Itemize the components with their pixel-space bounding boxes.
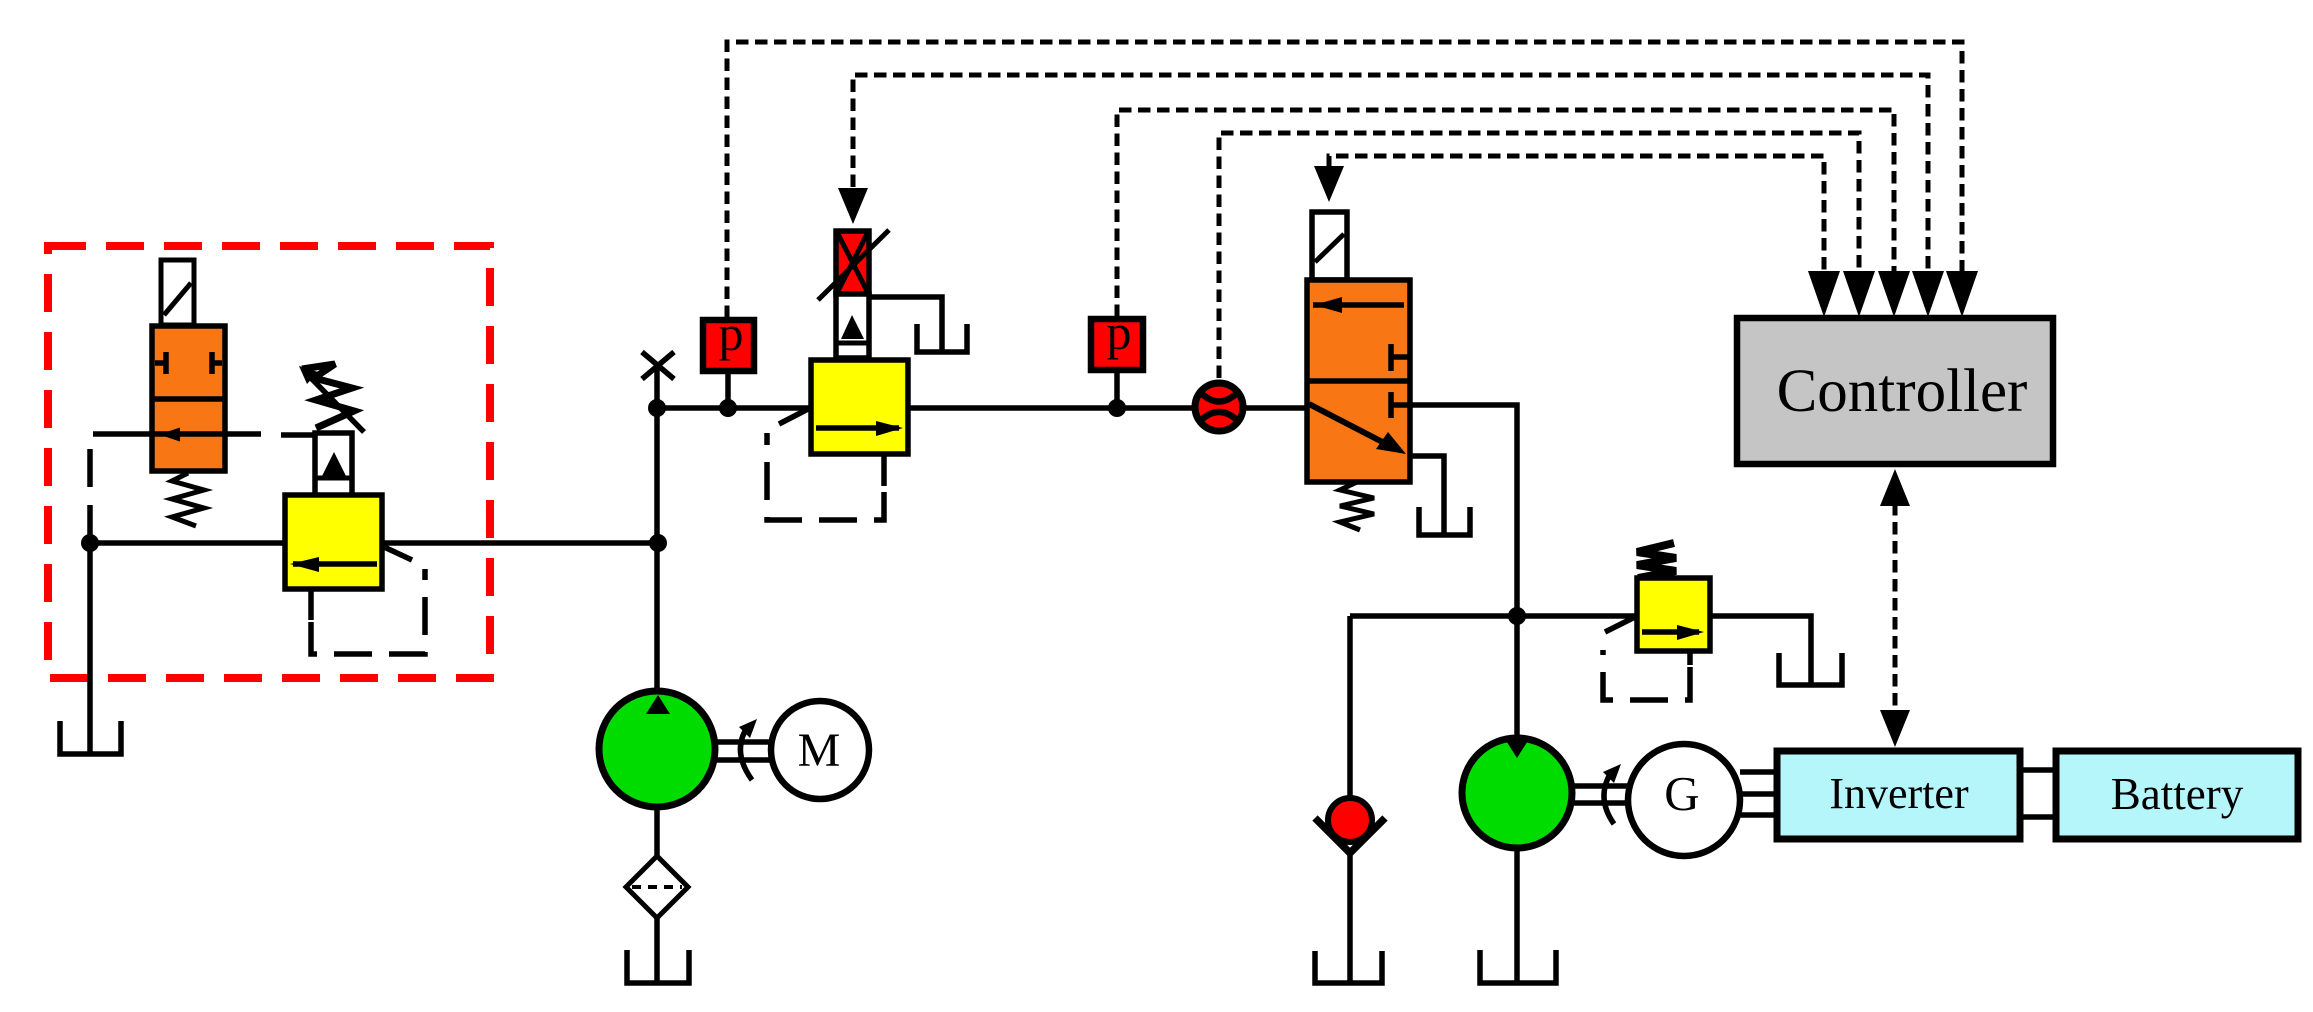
wire signal p2 to controller — [1117, 110, 1894, 317]
wire main vertical pump riser — [654, 365, 660, 691]
generator G — [1628, 744, 1740, 856]
pilot cap of valve V2 — [281, 433, 352, 496]
arrowhead V5 flow right — [1677, 625, 1704, 640]
wire signal p1 to controller — [727, 42, 1962, 318]
pump P1 (green) — [599, 691, 715, 807]
wire left tank drop — [87, 543, 93, 754]
svg-text:p: p — [1107, 304, 1132, 360]
wire V3 drain to tank T2 — [869, 297, 942, 350]
pressure sensor p2 — [1091, 304, 1143, 408]
svg-text:Controller: Controller — [1777, 358, 2028, 425]
wire main line left (through valve V2) — [90, 540, 658, 546]
node junction left-main — [649, 534, 667, 552]
node junction main-riser — [648, 399, 666, 417]
wire relief V5 to tank T4 — [1710, 616, 1811, 685]
wire pilot dashed to V1 — [90, 434, 115, 543]
proportional solenoid of valve V3 — [818, 230, 889, 300]
tank T1 — [60, 721, 121, 754]
wires generator G to inverter (3-phase) — [1740, 772, 1777, 815]
rotation arrow of generator G — [1603, 764, 1621, 824]
tank T5 — [1315, 951, 1382, 983]
arrowhead down into inverter top — [1880, 710, 1910, 747]
valve V1 body (2/2 solenoid valve) — [115, 326, 261, 471]
svg-text:Battery: Battery — [2111, 769, 2244, 819]
wire signal flow meter to controller — [1219, 133, 1859, 378]
wire check valve branch upper — [1347, 616, 1353, 798]
rotation arrow of motor M — [739, 719, 757, 780]
plug X — [642, 352, 674, 379]
wire flow meter to V4 — [1246, 405, 1307, 411]
wire V4 right port down — [1410, 405, 1517, 738]
arrowhead into controller 2 — [1843, 271, 1875, 317]
node junction p2 — [1108, 399, 1126, 417]
wire check valve to tank T5 — [1347, 851, 1353, 983]
arrowhead V3 flow right — [876, 421, 903, 436]
wire main line center right — [908, 405, 1192, 411]
relief valve V5 body (yellow) — [1603, 578, 1710, 700]
wires inverter to battery — [2020, 770, 2056, 817]
arrowhead into V3 solenoid — [838, 188, 868, 224]
tank T6 — [1480, 950, 1556, 983]
wire pump2 to tank T6 — [1514, 848, 1520, 983]
valve V3 body (proportional pressure valve yellow) — [767, 360, 908, 520]
wire main line center left — [657, 405, 811, 411]
arrowhead up into controller bottom — [1880, 469, 1910, 506]
valve V2 body (pilot relief valve yellow) — [285, 495, 425, 654]
arrowhead into V4 solenoid — [1314, 166, 1344, 202]
shaft pump P2 to generator G — [1572, 786, 1628, 803]
pilot check cap of valve V3 — [836, 294, 869, 358]
arrowhead V1 flow left — [159, 428, 180, 442]
arrowhead into controller 1 — [1808, 271, 1840, 317]
tank T3 — [1419, 507, 1470, 535]
arrowhead V4 diagonal flow — [1376, 432, 1406, 454]
tank T2 — [917, 324, 967, 352]
tank T4 — [1779, 653, 1842, 685]
spring of valve V1 — [172, 473, 204, 526]
electric motor M — [771, 701, 869, 799]
svg-text:Inverter: Inverter — [1829, 769, 1969, 818]
check valve CV — [1315, 798, 1385, 853]
spring of relief valve V5 — [1637, 543, 1676, 578]
enclosure red dashed box — [48, 246, 490, 678]
pump/motor P2 (green) — [1462, 738, 1572, 848]
controller box — [1737, 318, 2053, 464]
svg-text:M: M — [798, 724, 841, 777]
adjustable spring of valve V2 — [302, 364, 354, 428]
battery box — [2056, 751, 2298, 839]
valve V4 body (3/2 solenoid valve orange) — [1307, 280, 1410, 482]
inverter box — [1777, 751, 2020, 839]
node junction lower-manifold — [1508, 607, 1526, 625]
arrowhead into controller 5 — [1946, 271, 1978, 317]
wire signal controller to inverter — [1893, 503, 1898, 713]
solenoid coil of valve V1 — [161, 260, 194, 325]
arrowhead V2 flow left — [290, 557, 319, 572]
svg-text:p: p — [719, 305, 744, 361]
flow meter FM — [1195, 383, 1243, 431]
wire filter to tank T7 — [654, 917, 660, 983]
wire lower manifold line — [1350, 613, 1637, 619]
node junction red-box — [81, 534, 99, 552]
arrowhead V4 top flow left — [1314, 297, 1342, 313]
svg-text:G: G — [1664, 766, 1699, 821]
tank T7 — [627, 950, 689, 983]
wire signal controller to valve V4 solenoid — [1329, 156, 1824, 273]
wire signal controller to valve V3 solenoid — [853, 75, 1928, 273]
solenoid coil of valve V4 — [1312, 212, 1347, 280]
arrowhead into controller 4 — [1912, 271, 1944, 317]
spring of valve V4 — [1340, 482, 1374, 530]
shaft pump P1 to motor M — [716, 742, 772, 760]
adjustment arrow of valve V2 — [299, 366, 364, 432]
pressure sensor p1 — [703, 305, 754, 408]
filter F1 — [626, 856, 688, 918]
arrowhead into controller 3 — [1878, 271, 1910, 317]
node junction p1 — [719, 399, 737, 417]
wire pump1 to filter — [654, 807, 660, 857]
wire V4 drain to tank T3 — [1410, 456, 1444, 535]
